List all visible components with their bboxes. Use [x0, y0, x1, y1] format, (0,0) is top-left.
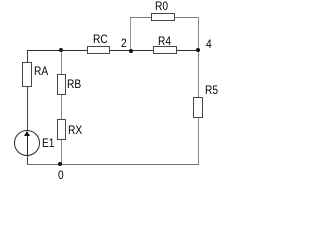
node 2 dot: [129, 49, 133, 53]
resistor R5 label: [205, 84, 218, 96]
resistor RB body: [57, 74, 66, 95]
node 0 label: [58, 169, 64, 181]
wire: left vertical branch x=27 from top-left corner to bottom wire: [27, 50, 28, 165]
resistor R0 label: [155, 0, 168, 12]
resistor R4 body: [153, 46, 177, 54]
resistor RA body: [22, 62, 32, 87]
wire: bottom horizontal net 0 y=164: [27, 164, 199, 165]
node 2 label: [121, 37, 127, 49]
resistor RC label: [93, 33, 108, 45]
resistor R0 body: [151, 13, 175, 21]
wire: main horizontal net y=50 from node 1 area to node 4: [27, 50, 199, 51]
wire: top R0 branch horizontal y=17: [130, 17, 199, 18]
resistor RX body: [57, 119, 66, 140]
wire: right vertical branch x=198 from R0 branch through R5 to bottom: [198, 17, 199, 165]
resistor RB label: [67, 78, 81, 90]
wire: middle vertical branch x=61 from junction to bottom wire: [61, 50, 62, 165]
node junction dot at (61,50): [59, 48, 63, 52]
wire: riser from node 2 up to R0 branch: [130, 17, 131, 51]
source E1 arrow shaft: [27, 133, 28, 156]
resistor R5 body: [193, 97, 203, 118]
source E1 label: [42, 137, 54, 149]
resistor RA label: [34, 65, 48, 77]
resistor R4 label: [158, 35, 171, 47]
node 0 junction dot at (61,164): [58, 162, 62, 166]
node 4 dot: [196, 48, 200, 52]
resistor RC body: [87, 46, 110, 54]
resistor RX label: [68, 124, 82, 136]
source E1 arrow head: [24, 131, 30, 136]
node 4 label: [206, 38, 212, 50]
source E1 circle: [14, 130, 40, 156]
